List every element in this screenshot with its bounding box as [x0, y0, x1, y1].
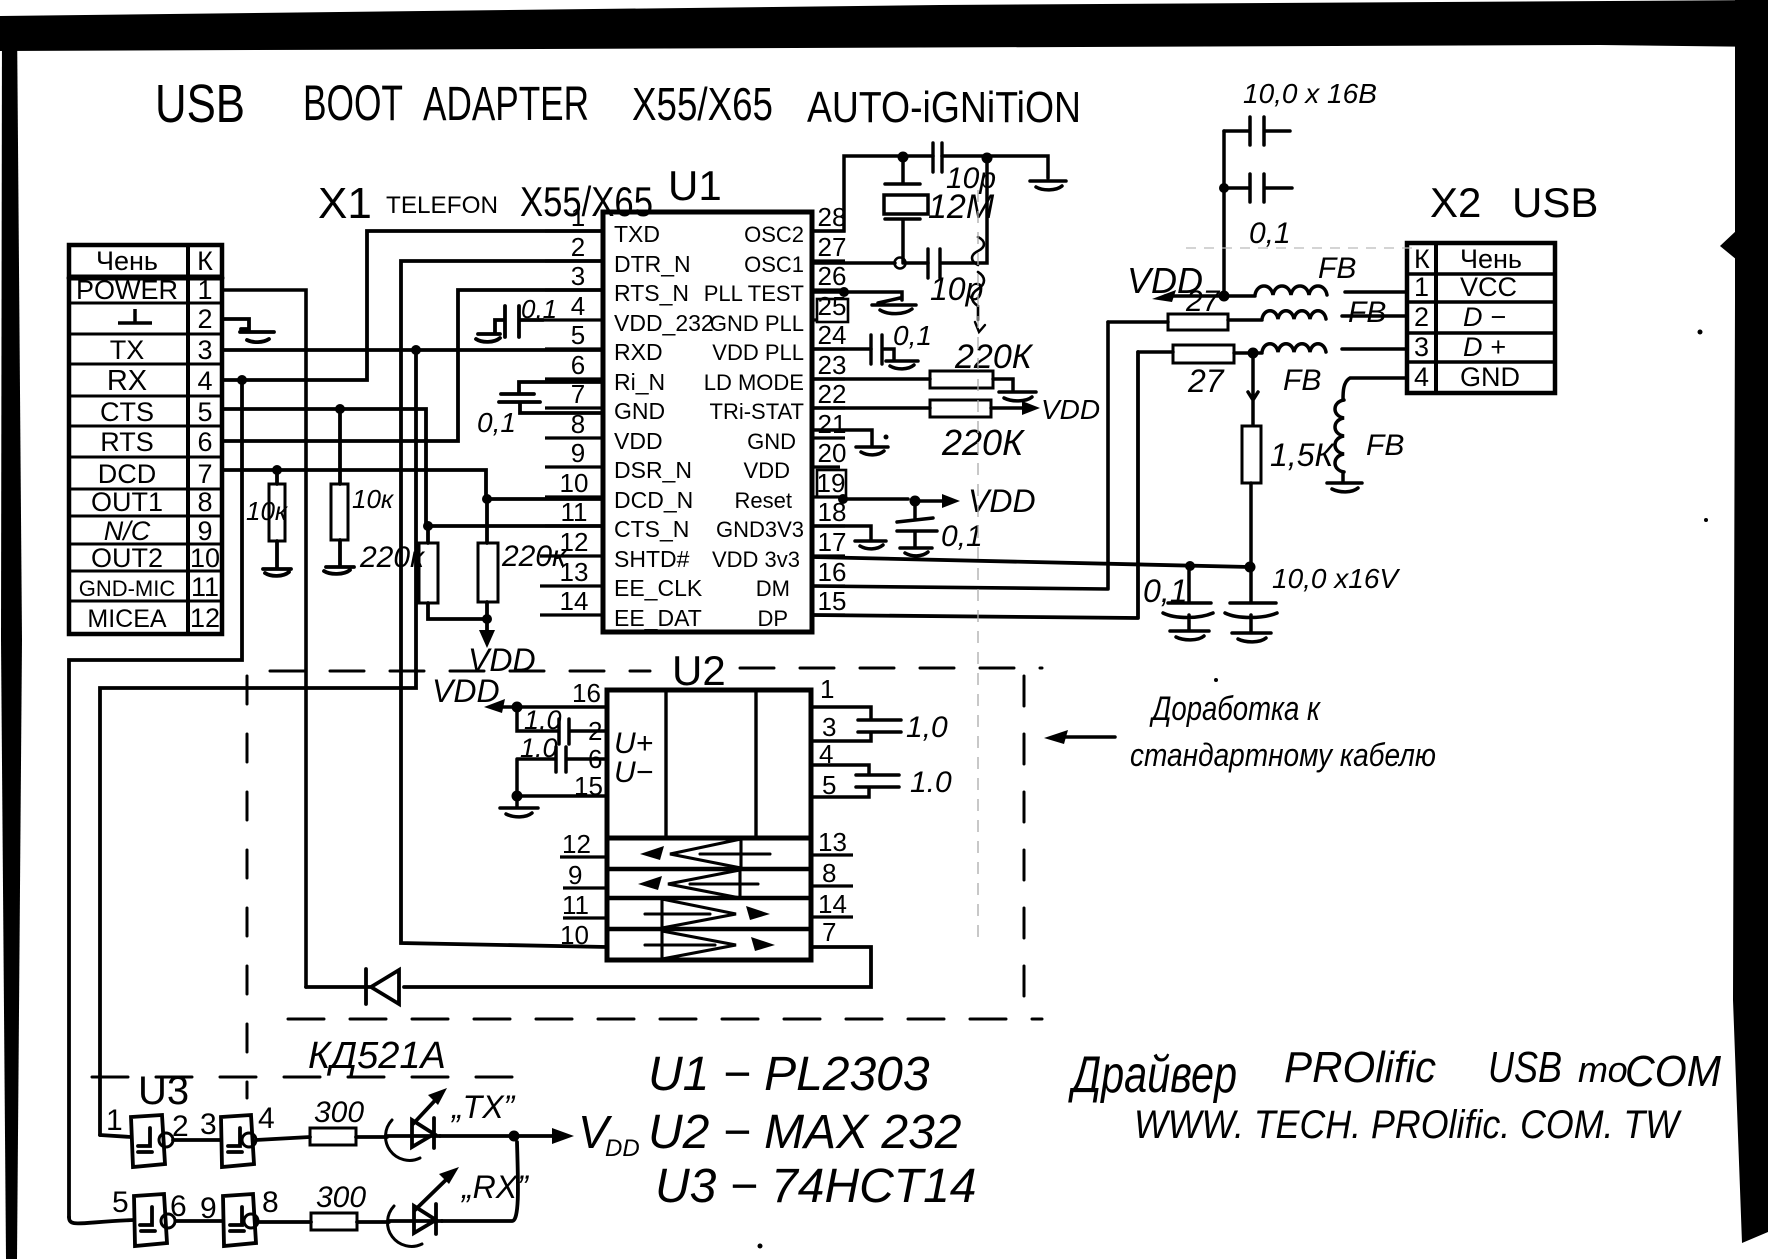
svg-text:5: 5	[112, 1186, 129, 1219]
svg-text:TXD: TXD	[614, 221, 660, 247]
svg-text:2: 2	[571, 232, 585, 262]
svg-text:U3: U3	[138, 1069, 189, 1113]
connector X1 ground glyph row 2	[118, 309, 152, 323]
svg-text:„TX”: „TX”	[450, 1089, 516, 1125]
svg-text:COM: COM	[1625, 1047, 1721, 1096]
svg-text:VDD: VDD	[744, 458, 790, 483]
diode KD521A cathode bar	[364, 969, 368, 1004]
svg-text:FB: FB	[1318, 252, 1356, 285]
chip U2 buffer rows	[607, 838, 811, 960]
svg-text:GND PLL: GND PLL	[710, 311, 804, 336]
svg-text:9: 9	[200, 1192, 217, 1225]
svg-text:4: 4	[258, 1102, 275, 1135]
border top bar	[0, 0, 1768, 51]
node crystal top junction	[898, 152, 909, 163]
svg-text:11: 11	[562, 890, 589, 920]
svg-text:220к: 220к	[359, 541, 426, 574]
svg-text:3: 3	[822, 712, 836, 742]
svg-text:RXD: RXD	[614, 339, 663, 365]
svg-text:EE_DAT: EE_DAT	[614, 605, 702, 631]
svg-text:6: 6	[588, 744, 602, 774]
svg-text:16: 16	[818, 557, 847, 587]
svg-text:13: 13	[818, 827, 847, 857]
svg-text:0,1: 0,1	[1143, 573, 1187, 609]
svg-text:9: 9	[568, 860, 582, 890]
VDD arrow below 220k	[485, 619, 489, 637]
connector X2 labels	[1414, 244, 1522, 392]
crystal circuit: wire pin28 up	[812, 143, 1066, 332]
svg-text:15: 15	[574, 771, 603, 801]
svg-text:12M: 12M	[928, 188, 995, 226]
svg-text:FB: FB	[1348, 296, 1386, 329]
svg-text:1,0: 1,0	[524, 705, 562, 735]
svg-text:DCD_N: DCD_N	[614, 487, 693, 513]
wire RTS X1.6 to U1 RTS_N pin3	[222, 290, 603, 441]
svg-text:DP: DP	[757, 606, 788, 631]
svg-text:USB: USB	[1512, 179, 1598, 226]
svg-text:9: 9	[571, 438, 585, 468]
resistor 220K on pin23 LD MODE	[812, 371, 1036, 401]
svg-text:GND: GND	[747, 429, 796, 454]
svg-text:SHTD#: SHTD#	[614, 546, 690, 572]
fold line faint	[977, 190, 979, 940]
svg-text:2: 2	[588, 716, 602, 746]
svg-text:Reset: Reset	[735, 488, 792, 513]
svg-text:ADAPTER: ADAPTER	[423, 78, 589, 131]
svg-text:TELEFON: TELEFON	[386, 192, 498, 219]
node CTS-220k junction	[423, 521, 433, 531]
svg-text:N/C: N/C	[104, 516, 151, 546]
buffer 1 triangle left	[640, 839, 770, 868]
svg-text:10p: 10p	[930, 271, 983, 307]
svg-text:12: 12	[560, 527, 589, 557]
svg-text:0,1: 0,1	[477, 407, 516, 438]
U2 right pin numbers	[818, 674, 847, 947]
LED TX row1	[386, 1088, 447, 1160]
wire LED1 to VDD	[440, 1128, 574, 1144]
svg-text:22: 22	[818, 379, 847, 409]
svg-text:27: 27	[818, 232, 847, 262]
title text	[155, 74, 1081, 134]
svg-text:PLL TEST: PLL TEST	[704, 281, 804, 306]
svg-text:стандартному кабелю: стандартному кабелю	[1130, 737, 1436, 773]
U1 pin25 box	[817, 299, 848, 322]
capacitor 0,1 second	[1224, 174, 1292, 202]
svg-text:GND: GND	[614, 398, 665, 424]
svg-text:11: 11	[561, 497, 588, 527]
resistor 220k R4	[485, 499, 489, 543]
svg-text:23: 23	[818, 350, 847, 380]
wire DTR U1 pin2 down to U2 pin10	[401, 261, 607, 947]
svg-text:WWW. TECH. PROlific. COM. TW: WWW. TECH. PROlific. COM. TW	[1134, 1103, 1682, 1147]
svg-text:OUT2: OUT2	[91, 543, 163, 573]
wire X2 GND pin4	[1327, 378, 1407, 492]
U2 pin4-pin5 capacitor 1.0	[811, 765, 899, 797]
svg-text:0,1: 0,1	[893, 320, 932, 351]
inverter U3A body	[100, 1115, 310, 1167]
svg-text:15: 15	[818, 586, 847, 616]
svg-text:0,1: 0,1	[1249, 217, 1291, 250]
svg-text:VDD: VDD	[432, 673, 500, 709]
svg-text:EE_CLK: EE_CLK	[614, 575, 703, 601]
svg-text:26: 26	[818, 261, 847, 291]
svg-text:X1: X1	[318, 179, 372, 228]
connector X1 pin numbers	[190, 246, 220, 633]
svg-text:24: 24	[818, 320, 847, 350]
svg-text:1: 1	[106, 1104, 123, 1137]
svg-text:AUTO-iGNiTiON: AUTO-iGNiTiON	[807, 83, 1081, 132]
svg-text:300: 300	[314, 1096, 364, 1129]
ferrite bead FB2 vertical on GND	[1327, 400, 1362, 492]
svg-text:КД521А: КД521А	[308, 1035, 446, 1077]
capacitor 0,1 at Reset	[897, 501, 937, 556]
svg-text:OSC1: OSC1	[744, 252, 804, 277]
wire pin15 DP to 27R	[812, 352, 1138, 618]
svg-text:17: 17	[818, 527, 847, 557]
capacitor 1.0 at U2 pin6	[500, 747, 607, 817]
svg-text:U2 − MAX 232: U2 − MAX 232	[648, 1106, 962, 1159]
wire pin17 VDD3V3 to caps	[812, 557, 1256, 573]
svg-text:U−: U−	[614, 756, 653, 789]
wire OSC1 pin27	[812, 160, 987, 263]
svg-text:6: 6	[571, 350, 585, 380]
svg-text:3: 3	[197, 335, 212, 365]
node D+ junction	[1248, 348, 1259, 359]
svg-text:RTS_N: RTS_N	[614, 280, 689, 306]
svg-text:RTS: RTS	[100, 427, 154, 457]
svg-text:TRi-STAT: TRi-STAT	[710, 399, 805, 424]
resistor 220k R3	[426, 526, 430, 543]
svg-text:BOOT: BOOT	[303, 75, 403, 131]
svg-text:28: 28	[818, 202, 847, 232]
svg-text:U2: U2	[672, 647, 726, 694]
node TX junction	[411, 345, 421, 355]
svg-text:7: 7	[197, 459, 212, 489]
crystal 12M body	[884, 157, 928, 263]
label 10k R1	[246, 484, 568, 678]
connector X1 row labels	[76, 246, 178, 633]
dashed mod box right	[1023, 676, 1026, 1012]
resistor 10k R2 on CTS	[338, 409, 342, 484]
capacitor 10p bottom plates	[928, 249, 940, 278]
wire POWER X1.1 to diode net	[222, 290, 306, 987]
svg-text:13: 13	[560, 557, 589, 587]
svg-text:Ri_N: Ri_N	[614, 369, 665, 395]
U1 right pin numbers	[817, 202, 847, 616]
svg-text:14: 14	[560, 586, 589, 616]
resistor 220K on pin22 TRI-STAT with VDD arrow	[812, 400, 1040, 417]
resistor 300 row2	[311, 1213, 389, 1230]
wire CTS X1.5 to U1 CTS_N pin11	[222, 409, 603, 526]
svg-text:CTS_N: CTS_N	[614, 516, 689, 542]
svg-text:9: 9	[197, 516, 212, 546]
svg-text:U1: U1	[668, 162, 722, 209]
svg-text:VDD: VDD	[614, 428, 663, 454]
svg-text:1,0: 1,0	[906, 711, 948, 744]
stray specks	[758, 330, 1709, 1249]
svg-text:MICEA: MICEA	[87, 605, 167, 633]
inverter U3D body	[223, 1194, 258, 1246]
wire DCD X1.7 to U1 DCD_N pin10	[222, 470, 603, 499]
svg-text:USB: USB	[155, 74, 245, 134]
svg-text:7: 7	[822, 917, 836, 947]
svg-text:10: 10	[190, 543, 220, 573]
svg-text:0,1: 0,1	[521, 294, 557, 324]
wire RX drop to U3 row2	[69, 380, 242, 1217]
svg-text:4: 4	[571, 291, 585, 321]
svg-text:8: 8	[197, 487, 212, 517]
wire LED2 up to VDD node	[442, 1142, 518, 1221]
svg-text:Доработка к: Доработка к	[1149, 690, 1322, 728]
capacitor 10,0x16V bottom	[1225, 567, 1277, 642]
svg-text:220К: 220К	[954, 338, 1034, 376]
svg-text:LD MODE: LD MODE	[704, 370, 804, 395]
svg-text:Драйвер: Драйвер	[1068, 1046, 1237, 1104]
svg-text:D −: D −	[1463, 302, 1506, 332]
wire RX X1.4 up to U1 TXD pin1	[222, 231, 603, 380]
wire pin18 GND3V3 to ground	[812, 526, 886, 549]
svg-text:VCC: VCC	[1460, 272, 1517, 302]
svg-text:3: 3	[1414, 332, 1429, 362]
U2 buffer row stubs	[560, 855, 853, 918]
svg-text:4: 4	[1414, 362, 1429, 392]
wire pin19 Reset to VDD arrow	[838, 494, 960, 508]
svg-text:5: 5	[571, 320, 585, 350]
node CTS junction	[335, 404, 345, 414]
ferrite bead FB1 on VCC	[1224, 286, 1407, 296]
svg-text:RX: RX	[107, 365, 147, 397]
svg-text:27: 27	[1185, 285, 1221, 318]
svg-text:8: 8	[822, 858, 836, 888]
svg-text:1,5К: 1,5К	[1270, 437, 1335, 473]
wire TX X1.3 to U1 RXD pin5	[222, 348, 603, 352]
U1 right pin stubs	[812, 231, 845, 615]
svg-text:2: 2	[1414, 302, 1429, 332]
svg-text:CTS: CTS	[100, 397, 154, 427]
fold crease horizontal faint	[1186, 247, 1420, 249]
svg-text:10,0 х16V: 10,0 х16V	[1272, 563, 1400, 594]
svg-text:USB: USB	[1488, 1043, 1562, 1092]
resistor 27 R5 (D-)	[1108, 311, 1407, 330]
node cap right junction	[982, 153, 993, 164]
svg-text:то: то	[1578, 1049, 1628, 1090]
svg-text:VDD: VDD	[1041, 394, 1100, 425]
wire pin16 DM to 27R	[812, 322, 1108, 589]
capacitor 0,1 at pin24 VDD PLL	[812, 335, 918, 369]
U2 pin16 wire and VDD arrow	[484, 699, 607, 713]
svg-text:1.0: 1.0	[520, 733, 558, 763]
U3 row2 pin numbers	[112, 1186, 279, 1225]
svg-text:10к: 10к	[246, 496, 289, 526]
wire U2 pin7 to diode to POWER	[306, 947, 871, 1004]
svg-text:2: 2	[172, 1110, 189, 1143]
capacitor 10,0x16B top	[1224, 117, 1290, 145]
capacitor 0,1 at U1 pin4	[476, 306, 543, 342]
border right notch triangle	[1720, 230, 1737, 260]
U1 left pin stubs	[540, 231, 603, 615]
dashed mod box left	[246, 676, 249, 1098]
U3 row1 pin numbers	[106, 1102, 275, 1143]
buffer 4 triangle right	[645, 931, 775, 959]
svg-text:1: 1	[1414, 272, 1429, 302]
svg-text:4: 4	[197, 366, 212, 396]
node 220k bottom junction	[482, 614, 492, 624]
svg-text:POWER: POWER	[76, 275, 178, 305]
svg-text:PROlific: PROlific	[1284, 1043, 1436, 1092]
svg-text:VDD 3v3: VDD 3v3	[712, 547, 800, 572]
svg-text:20: 20	[818, 438, 847, 468]
border right bar	[1733, 0, 1768, 1243]
svg-text:FB: FB	[1283, 364, 1321, 397]
svg-text:10: 10	[560, 468, 589, 498]
node DCD-220k junction	[482, 494, 492, 504]
svg-text:DTR_N: DTR_N	[614, 251, 691, 277]
wire pin21 GND to ground	[812, 430, 888, 455]
resistor 1,5K pullup	[1242, 353, 1261, 567]
chip U1 body	[603, 212, 812, 632]
svg-text:12: 12	[562, 829, 591, 859]
resistor squiggle at crystal	[972, 237, 984, 320]
ground symbol at X1.2	[222, 319, 274, 342]
svg-text:14: 14	[818, 889, 847, 919]
connector X1 column divider	[186, 245, 190, 634]
svg-text:19: 19	[817, 468, 846, 498]
svg-text:8: 8	[262, 1186, 279, 1219]
svg-text:220К: 220К	[941, 422, 1025, 463]
inverter U3B body	[221, 1115, 256, 1167]
svg-text:Чень: Чень	[96, 246, 158, 276]
svg-text:5: 5	[197, 397, 212, 427]
svg-text:DCD: DCD	[98, 459, 157, 489]
svg-text:300: 300	[316, 1181, 366, 1214]
connector X1 table frame	[69, 245, 222, 634]
U2 left pin numbers	[560, 678, 603, 950]
dashed mod box top	[92, 668, 1042, 1098]
arrow to mod box	[1044, 730, 1115, 744]
svg-text:1: 1	[197, 275, 212, 305]
svg-text:OSC2: OSC2	[744, 222, 804, 247]
svg-text:Чень: Чень	[1460, 244, 1522, 274]
U1 right pin labels	[704, 222, 804, 631]
node DCD junction	[272, 465, 282, 475]
U1 pin19 box	[817, 470, 846, 497]
node RX junction	[237, 375, 247, 385]
svg-text:DD: DD	[605, 1135, 640, 1162]
svg-text:GND: GND	[1460, 362, 1520, 392]
resistor 300 row1	[310, 1128, 387, 1145]
LED RX row2	[388, 1167, 459, 1246]
wire VDD up to caps	[1222, 131, 1226, 296]
border left bar	[1, 20, 22, 1259]
svg-text:1: 1	[571, 202, 585, 232]
dashed mod box bottom	[288, 1018, 1042, 1021]
svg-text:3: 3	[571, 261, 585, 291]
connector X1 row lines	[69, 276, 222, 601]
svg-text:2: 2	[197, 304, 212, 334]
dashed line lower left	[92, 1076, 530, 1079]
U1 left pin numbers	[560, 202, 589, 616]
buffer 3 triangle right	[645, 899, 770, 928]
svg-text:10к: 10к	[352, 484, 395, 514]
capacitor 0,1 bottom left	[1163, 567, 1213, 640]
svg-text:VDD PLL: VDD PLL	[712, 340, 804, 365]
node OSC1 open circle	[895, 258, 906, 269]
capacitor 10p top plates	[933, 143, 942, 172]
svg-text:U1 − PL2303: U1 − PL2303	[648, 1048, 930, 1101]
capacitor 0,1 between U1 pin6 and pin7	[499, 382, 603, 413]
svg-text:16: 16	[572, 678, 601, 708]
U1 left pin labels	[614, 221, 714, 631]
node VDD junction	[1219, 291, 1230, 302]
svg-text:6: 6	[170, 1190, 187, 1223]
svg-text:U3 − 74HCT14: U3 − 74HCT14	[655, 1160, 977, 1213]
svg-text:К: К	[1414, 244, 1430, 274]
svg-text:GND3V3: GND3V3	[716, 517, 804, 542]
svg-text:OUT1: OUT1	[91, 487, 163, 517]
svg-text:6: 6	[197, 427, 212, 457]
svg-text:1.0: 1.0	[910, 766, 952, 799]
svg-text:D +: D +	[1463, 332, 1506, 362]
svg-text:21: 21	[818, 409, 847, 439]
svg-text:DM: DM	[756, 576, 790, 601]
wire PLL TEST pin26 to ground	[812, 287, 916, 314]
svg-text:FB: FB	[1366, 429, 1404, 462]
svg-text:X2: X2	[1430, 179, 1481, 226]
capacitor 1,0 at U2 pin2	[517, 707, 607, 744]
resistor 27 R6 (D+)	[1138, 344, 1407, 363]
svg-text:К: К	[197, 246, 213, 276]
svg-text:0,1: 0,1	[941, 520, 983, 553]
resistor 10k R1 on DCD	[275, 470, 279, 484]
svg-text:12: 12	[190, 603, 220, 633]
connector X2 table frame	[1407, 243, 1555, 393]
svg-text:11: 11	[191, 572, 219, 602]
svg-text:TX: TX	[110, 335, 145, 365]
label X1 title	[318, 178, 653, 228]
svg-text:GND-MIC: GND-MIC	[79, 576, 176, 601]
svg-text:VDD_232: VDD_232	[614, 310, 714, 336]
svg-text:27: 27	[1187, 363, 1225, 399]
svg-text:3: 3	[200, 1108, 217, 1141]
U2 pin1-pin3 capacitor 1,0	[811, 707, 901, 741]
svg-text:DSR_N: DSR_N	[614, 457, 692, 483]
chip U2 upper body	[607, 690, 811, 960]
inverter U3C body	[69, 1194, 311, 1246]
svg-text:10,0 х 16В: 10,0 х 16В	[1243, 78, 1377, 109]
svg-text:X55/X65: X55/X65	[520, 178, 653, 225]
svg-text:1: 1	[820, 674, 834, 704]
svg-text:X55/X65: X55/X65	[632, 78, 773, 130]
wire TX drop to U3 row1	[100, 350, 416, 1135]
buffer 2 triangle left	[638, 870, 758, 898]
